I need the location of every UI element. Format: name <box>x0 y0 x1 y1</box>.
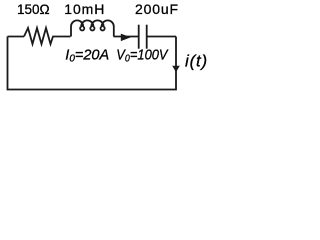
svg-text:10mH: 10mH <box>64 1 105 17</box>
svg-text:i(t): i(t) <box>185 52 208 71</box>
svg-text:150Ω: 150Ω <box>17 2 50 17</box>
svg-text:V0=100V: V0=100V <box>116 47 169 65</box>
svg-text:I0=20A: I0=20A <box>65 48 109 65</box>
svg-text:200uF: 200uF <box>135 1 179 17</box>
